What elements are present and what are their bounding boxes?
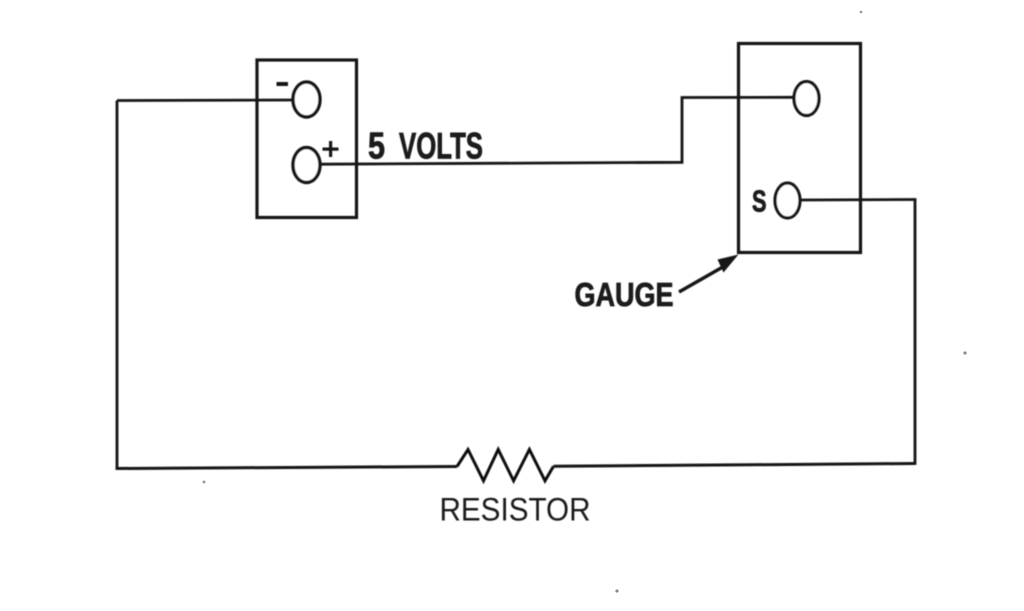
plus label: [323, 141, 339, 157]
speck right-middle: [963, 351, 966, 354]
svg-text:S: S: [752, 184, 767, 219]
wire bottom-left segment to resistor: [116, 467, 457, 469]
speck bottom-center: [615, 589, 618, 592]
battery positive terminal circle: [293, 148, 320, 183]
label 5 VOLTS: [368, 126, 483, 167]
gauge S terminal circle: [775, 183, 800, 218]
label S: [752, 184, 767, 219]
wire 5-volts run: plus terminal to gauge top terminal: [320, 97, 794, 164]
gauge top terminal circle: [794, 82, 819, 116]
label RESISTOR: [440, 492, 591, 528]
svg-text:GAUGE: GAUGE: [575, 276, 674, 313]
wire from negative terminal to top-left corner: [117, 99, 293, 102]
label GAUGE: [575, 276, 674, 313]
svg-text:5: 5: [368, 126, 385, 167]
minus label: [277, 82, 289, 86]
wire from S terminal to right vertical: [800, 198, 916, 201]
battery negative terminal circle: [293, 82, 320, 117]
speck bottom-left: [203, 481, 206, 484]
wire bottom-right segment from resistor: [554, 464, 916, 467]
battery box: [257, 60, 357, 218]
resistor R1 zigzag: [457, 450, 554, 481]
svg-text:RESISTOR: RESISTOR: [440, 492, 591, 528]
gauge box: [739, 44, 861, 253]
svg-text:VOLTS: VOLTS: [399, 126, 483, 167]
wire left vertical segment: [116, 101, 119, 470]
speck top-right: [860, 11, 863, 14]
wire right vertical segment: [914, 200, 917, 465]
gauge pointer arrow: [679, 255, 739, 293]
